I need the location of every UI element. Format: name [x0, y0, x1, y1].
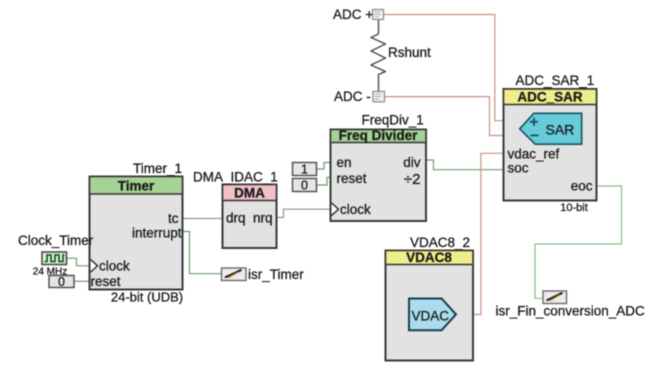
svg-text:nrq: nrq [253, 211, 273, 226]
svg-text:eoc: eoc [571, 179, 593, 194]
svg-text:DMA: DMA [234, 186, 265, 201]
isr isr_Fin_conversion_ADC box [543, 291, 567, 304]
svg-text:SAR: SAR [546, 122, 575, 138]
svg-text:clock: clock [340, 202, 371, 217]
dma DMA_IDAC_1 header [223, 185, 277, 201]
pin eoc [571, 179, 593, 194]
timer U Timer_1 body [90, 177, 183, 290]
svg-text:en: en [337, 155, 352, 170]
constant 1 for FreqDiv en [293, 163, 317, 177]
adc U ADC_SAR_1 body [504, 89, 597, 201]
constant 0 for Timer reset [49, 275, 74, 289]
terminal ADC- pin [373, 91, 385, 101]
pin vdac_ref [508, 147, 560, 162]
wire internal minus input [504, 135, 531, 137]
svg-text:24-bit (UDB): 24-bit (UDB) [111, 290, 183, 305]
pin reset FreqDiv [337, 171, 367, 186]
wire clock to Timer clock pin [67, 258, 90, 266]
wire internal plus input [504, 120, 529, 122]
svg-text:Clock_Timer: Clock_Timer [18, 233, 94, 248]
wire Timer interrupt to isr_Timer [183, 232, 222, 274]
svg-text:ADC_SAR: ADC_SAR [517, 90, 583, 105]
vdac U VDAC8_2 body [386, 251, 474, 361]
pin soc [508, 161, 529, 176]
wire VDAC out to ADC_SAR vdac_ref [456, 153, 504, 314]
terminal ADC+ pin [373, 10, 384, 20]
timer Timer_1 header [90, 177, 183, 195]
wire const1 to FreqDiv en [317, 163, 331, 170]
label isr_Fin_conversion_ADC [496, 304, 646, 319]
label ADC- [334, 89, 371, 104]
svg-text:ADC +: ADC + [333, 7, 373, 22]
label Clock_Timer [18, 233, 94, 248]
label Rshunt [388, 45, 431, 60]
svg-text:Rshunt: Rshunt [388, 45, 431, 60]
freqdiv FreqDiv_1 header [331, 128, 427, 143]
pin clock chevron FreqDiv [332, 202, 372, 217]
svg-text:0: 0 [301, 179, 308, 193]
svg-text:FreqDiv_1: FreqDiv_1 [362, 113, 424, 128]
wire ADC_SAR eoc to isr_Fin_conversion_ADC [535, 186, 622, 298]
wire Timer tc to DMA drq [183, 218, 223, 220]
svg-text:clock: clock [99, 259, 130, 274]
dma U DMA_IDAC_1 body [223, 185, 277, 249]
svg-text:÷2: ÷2 [404, 171, 421, 188]
svg-text:vdac_ref: vdac_ref [508, 147, 560, 162]
label VDAC8_2 title [410, 235, 470, 250]
svg-text:Timer: Timer [118, 179, 155, 194]
pin en [337, 155, 352, 170]
svg-text:reset: reset [337, 171, 367, 186]
svg-text:soc: soc [508, 161, 529, 176]
wire ADC- to ADC_SAR minus input [385, 97, 504, 136]
svg-text:isr_Timer: isr_Timer [248, 267, 304, 282]
label divide by 2 [404, 171, 421, 188]
pin drq [226, 211, 246, 226]
label 24-bit (UDB) [111, 290, 183, 305]
sar pentagon [520, 113, 582, 144]
isr isr_Timer box [222, 268, 247, 281]
svg-text:1: 1 [301, 163, 308, 177]
adc ADC_SAR_1 header [504, 89, 597, 105]
svg-text:VDAC: VDAC [412, 309, 450, 324]
svg-text:tc: tc [168, 211, 179, 226]
pin clock chevron [91, 259, 131, 274]
svg-text:10-bit: 10-bit [560, 202, 588, 214]
svg-text:ADC -: ADC - [334, 89, 371, 104]
label DMA_IDAC_1 title [193, 170, 278, 185]
svg-text:Timer_1: Timer_1 [133, 161, 182, 176]
svg-text:0: 0 [58, 275, 65, 289]
label ADC_SAR_1 title [516, 73, 595, 88]
svg-text:VDAC8_2: VDAC8_2 [410, 235, 470, 250]
svg-text:drq: drq [226, 211, 246, 226]
label ADC+ [333, 7, 373, 22]
pin reset [91, 274, 121, 289]
label 24 MHz [33, 267, 67, 278]
pin nrq [253, 211, 273, 226]
svg-text:div: div [403, 155, 421, 170]
svg-text:Freq Divider: Freq Divider [339, 128, 419, 143]
svg-text:interrupt: interrupt [132, 226, 182, 241]
freqdiv U FreqDiv_1 body [331, 130, 427, 222]
pin interrupt [132, 226, 182, 241]
resistor Rshunt [371, 20, 386, 91]
label Timer_1 title [133, 161, 182, 176]
pin tc [168, 211, 179, 226]
svg-text:reset: reset [91, 274, 121, 289]
svg-text:VDAC8: VDAC8 [406, 250, 452, 265]
svg-text:ADC_SAR_1: ADC_SAR_1 [516, 73, 595, 88]
wire const0 to FreqDiv reset [317, 178, 331, 186]
clock Clock_Timer icon [42, 252, 67, 265]
label FreqDiv_1 title [362, 113, 424, 128]
vdac VDAC8_2 header [386, 250, 474, 265]
wire DMA nrq to FreqDiv clock [277, 209, 331, 217]
label isr_Timer [248, 267, 304, 282]
wire ADC+ to ADC_SAR plus input [384, 15, 504, 121]
constant 0 for FreqDiv reset [293, 179, 317, 193]
vdac pentagon [409, 299, 456, 331]
svg-text:isr_Fin_conversion_ADC: isr_Fin_conversion_ADC [496, 304, 646, 319]
pin div [403, 155, 421, 170]
wire const0 to Timer reset [75, 280, 90, 282]
label 10-bit [560, 202, 588, 214]
svg-text:DMA_IDAC_1: DMA_IDAC_1 [193, 170, 278, 185]
wire FreqDiv div to ADC_SAR soc [426, 160, 504, 170]
